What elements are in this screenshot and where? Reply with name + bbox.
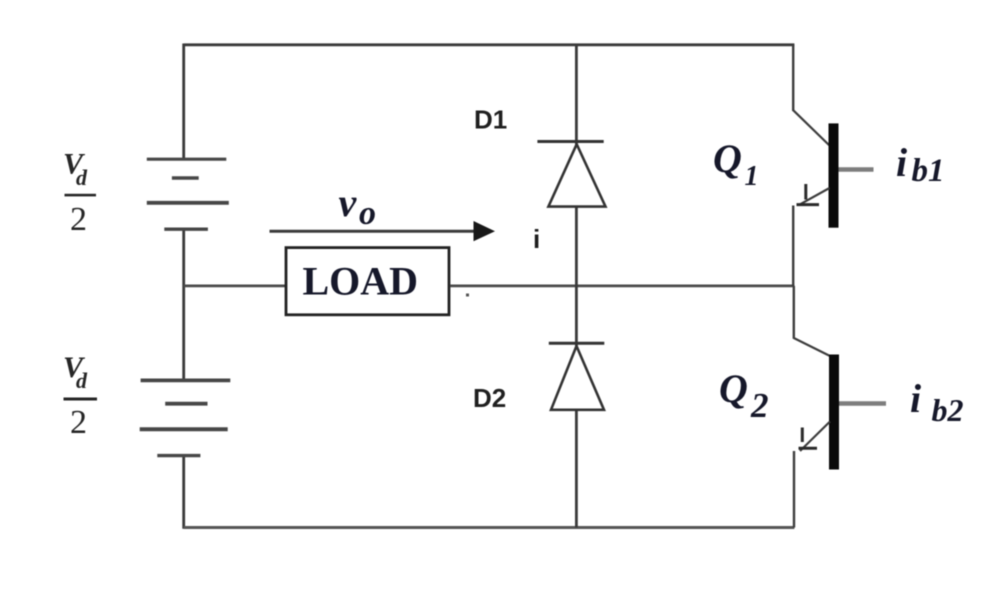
svg-text:LOAD: LOAD: [303, 259, 419, 304]
wire Q1 collector vertical: [792, 45, 794, 111]
wire mid rail right (LOAD to transistor node): [451, 284, 795, 287]
svg-text:o: o: [359, 195, 376, 232]
wire Q1 emitter diagonal: [799, 188, 830, 205]
Q1 emitter arrowhead: [804, 184, 807, 200]
svg-text:i: i: [910, 376, 921, 421]
wire bottom rail: [184, 526, 795, 529]
svg-text:b1: b1: [912, 153, 945, 189]
wire mid rail left (node to LOAD): [184, 284, 286, 287]
wire Q1 collector diagonal: [793, 110, 830, 146]
Q1 base lead: [839, 167, 874, 172]
svg-text:Q: Q: [713, 136, 742, 181]
wire diode branch upper (top rail to D1): [575, 45, 578, 146]
wire Q2 collector vertical: [793, 286, 795, 339]
wire left vertical middle (battery B1 to battery B2): [182, 229, 185, 379]
artifact dot: [466, 294, 469, 297]
Q2 base lead: [839, 401, 886, 406]
label v_o: [339, 180, 377, 232]
battery B2 (bottom Vd/2 source): [140, 380, 231, 455]
label Vd/2 top fraction: [63, 148, 96, 239]
Q2 emitter arrowhead: [801, 428, 804, 443]
svg-text:d: d: [76, 368, 88, 393]
svg-text:D2: D2: [473, 383, 506, 413]
wire left vertical lower (battery B2 to bottom rail): [182, 456, 185, 529]
wire top rail: [184, 43, 795, 46]
svg-text:b2: b2: [932, 392, 964, 428]
Q1 base bar: [829, 123, 839, 227]
transistor Q1: [793, 45, 873, 286]
wire left vertical upper (top rail to battery B1): [182, 44, 185, 159]
diode D1: [537, 142, 605, 207]
label Q1: [713, 136, 759, 192]
LOAD box: [286, 248, 449, 315]
svg-text:2: 2: [70, 404, 87, 441]
battery B1 (top Vd/2 source): [147, 159, 229, 229]
svg-text:Q: Q: [719, 366, 748, 411]
svg-text:D1: D1: [474, 105, 507, 135]
Q2 base bar: [829, 355, 839, 470]
label i_b2: [910, 376, 964, 428]
wire Q2 collector diagonal: [794, 338, 831, 357]
svg-text:i: i: [896, 140, 907, 185]
arrow v_o output voltage: [270, 221, 496, 241]
svg-text:d: d: [76, 165, 88, 190]
label i_b1: [896, 140, 945, 189]
svg-text:v: v: [339, 180, 358, 225]
transistor Q2: [794, 286, 886, 528]
label Vd/2 bottom fraction: [63, 351, 97, 441]
svg-text:1: 1: [745, 161, 759, 192]
wire Q1 emitter vertical: [792, 206, 794, 286]
wire diode branch lower (D2 to bottom rail): [575, 410, 578, 528]
svg-text:i: i: [533, 224, 540, 254]
svg-text:2: 2: [70, 201, 87, 238]
wire Q2 emitter vertical: [793, 451, 795, 528]
label Q2: [719, 366, 769, 425]
svg-text:2: 2: [750, 386, 769, 425]
diode D2: [549, 343, 605, 410]
wire diode branch middle (D1 to D2): [575, 207, 578, 348]
wire Q2 emitter diagonal: [800, 422, 830, 452]
